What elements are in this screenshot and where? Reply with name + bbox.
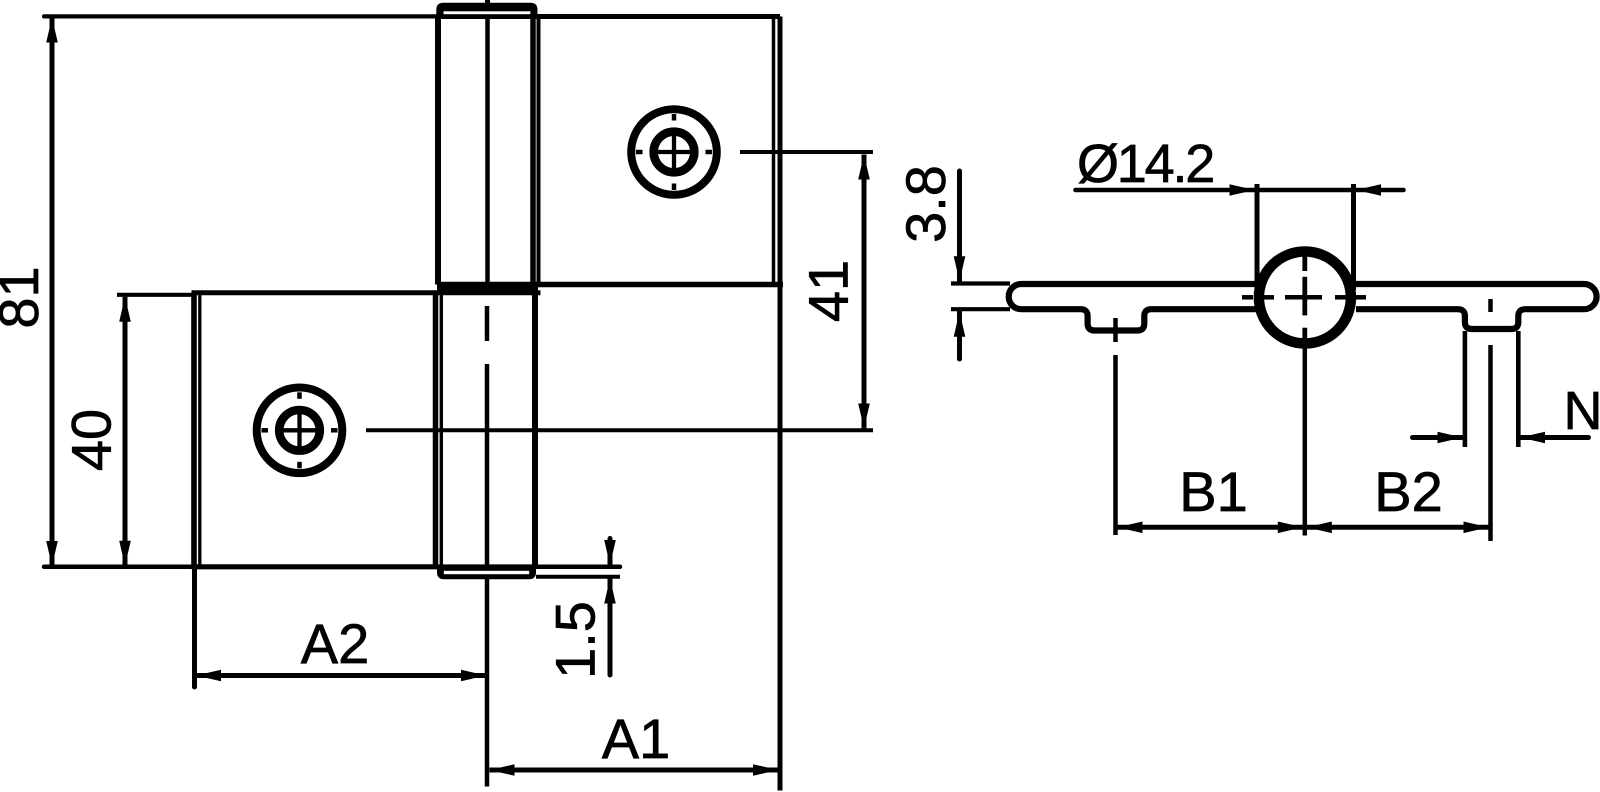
barrel upper left line xyxy=(435,17,441,285)
arrow 40 up xyxy=(119,297,131,322)
arrow dia14.2 left xyxy=(1356,184,1381,196)
arrow A1 right xyxy=(753,764,778,776)
barrel upper middle line xyxy=(485,17,490,284)
pin centerline / A2-A1 extension xyxy=(485,364,490,787)
hole H2 upper: outer circle xyxy=(631,109,717,195)
hole centerline left (B1 extension) xyxy=(1113,318,1118,342)
arrow 1.5 down xyxy=(604,540,616,565)
arrow 81 up xyxy=(46,18,58,43)
arrow dia14.2 right xyxy=(1230,184,1255,196)
arrow 41 down xyxy=(858,404,870,429)
wire top extension line xyxy=(44,14,437,18)
dimension 40 extension tick xyxy=(117,293,192,297)
knuckle centerline lower extension xyxy=(1303,349,1308,536)
dimension B1 B2 line xyxy=(1118,525,1489,530)
dimension dia14.2 extensions xyxy=(1255,184,1260,290)
hole H1 lower: outer circle xyxy=(257,388,343,474)
svg-text:B1: B1 xyxy=(1179,460,1248,523)
arrow 3.8 up xyxy=(954,312,966,337)
barrel lower right line xyxy=(532,293,538,567)
arrow A2 left xyxy=(196,670,221,682)
dimension 81 line xyxy=(50,18,55,567)
knuckle circle xyxy=(1259,252,1351,344)
barrel cap bottom extension xyxy=(536,575,620,579)
arrow 3.8 down xyxy=(954,256,966,281)
svg-text:3.8: 3.8 xyxy=(894,165,957,243)
upper leaf bottom edge xyxy=(437,282,783,288)
lower leaf bottom edge thick part xyxy=(192,564,438,569)
svg-text:Ø14.2: Ø14.2 xyxy=(1077,134,1213,194)
barrel bottom cap xyxy=(437,564,536,579)
lower leaf inner left thin line xyxy=(198,294,201,566)
dimension A2 left extension xyxy=(192,570,197,687)
arrow 40 down xyxy=(119,541,131,566)
hole H2 centerline long dash right / 41 extension xyxy=(740,150,873,154)
svg-text:40: 40 xyxy=(60,409,123,471)
junction filler band xyxy=(437,282,538,295)
svg-text:B2: B2 xyxy=(1374,460,1443,523)
barrel lower left thin line xyxy=(440,294,443,567)
arrow B1 right xyxy=(1278,522,1303,534)
svg-text:A2: A2 xyxy=(301,612,370,675)
dimension 3.8 extension ticks xyxy=(951,281,1010,285)
dimension 41 line xyxy=(862,155,867,429)
dimension A2 line xyxy=(196,673,486,678)
svg-text:N: N xyxy=(1564,381,1600,441)
upper leaf top edge xyxy=(436,14,780,19)
dimension 3.8 lines xyxy=(957,171,962,281)
barrel lower left outer line xyxy=(433,293,439,567)
svg-text:81: 81 xyxy=(0,266,50,328)
dimension 1.5 lines xyxy=(608,539,613,565)
svg-text:1.5: 1.5 xyxy=(544,601,607,679)
plate left outline with rounded tip and notch xyxy=(1009,284,1256,331)
lower leaf outer left edge xyxy=(191,293,197,569)
hole H2 centerline dots xyxy=(672,114,677,121)
plate right outline with rounded tip and notch xyxy=(1354,284,1597,329)
lower leaf top edge xyxy=(192,290,541,295)
dimension N extensions (notch walls) xyxy=(1463,331,1468,447)
arrow B1 left xyxy=(1118,522,1143,534)
hole H1 centerline dots xyxy=(297,392,302,399)
barrel top cap xyxy=(436,3,537,17)
lower leaf bottom edge + 1.5 extension xyxy=(44,565,620,570)
arrow 1.5 up xyxy=(604,579,616,604)
arrow B2 left xyxy=(1307,522,1332,534)
arrow N left xyxy=(1520,432,1545,444)
dimension A1 line xyxy=(490,768,779,773)
upper leaf inner right thin line xyxy=(772,17,776,285)
barrel upper right line xyxy=(530,17,536,285)
dimension N lines xyxy=(1413,435,1463,440)
dimension 40 line xyxy=(123,297,128,566)
upper leaf outer right edge + A1 extension xyxy=(778,17,783,791)
upper leaf left edge xyxy=(537,17,541,285)
knuckle horizontal centerline dashes xyxy=(1242,295,1253,300)
knuckle vertical centerline dashes xyxy=(1302,255,1307,271)
arrow B2 right xyxy=(1464,522,1489,534)
hole H1 centerline long dash right / 41 extension xyxy=(366,428,873,432)
hole H1 inner circle xyxy=(279,410,320,451)
hole H1 cross xyxy=(280,428,320,432)
hole H2 inner circle xyxy=(654,132,695,173)
hole H2 cross xyxy=(654,150,694,154)
pin centerline stub above cap xyxy=(485,0,490,3)
hole centerline right (B2 extension) xyxy=(1488,299,1493,312)
svg-text:A1: A1 xyxy=(602,707,671,770)
arrow 41 up xyxy=(858,155,870,180)
pin centerline dash xyxy=(485,306,490,341)
arrow A2 right xyxy=(461,670,486,682)
arrow A1 left xyxy=(490,764,515,776)
arrow 81 down xyxy=(46,541,58,566)
svg-text:41: 41 xyxy=(797,260,860,322)
dimension dia14.2 line xyxy=(1076,188,1404,193)
arrow N right xyxy=(1438,432,1463,444)
